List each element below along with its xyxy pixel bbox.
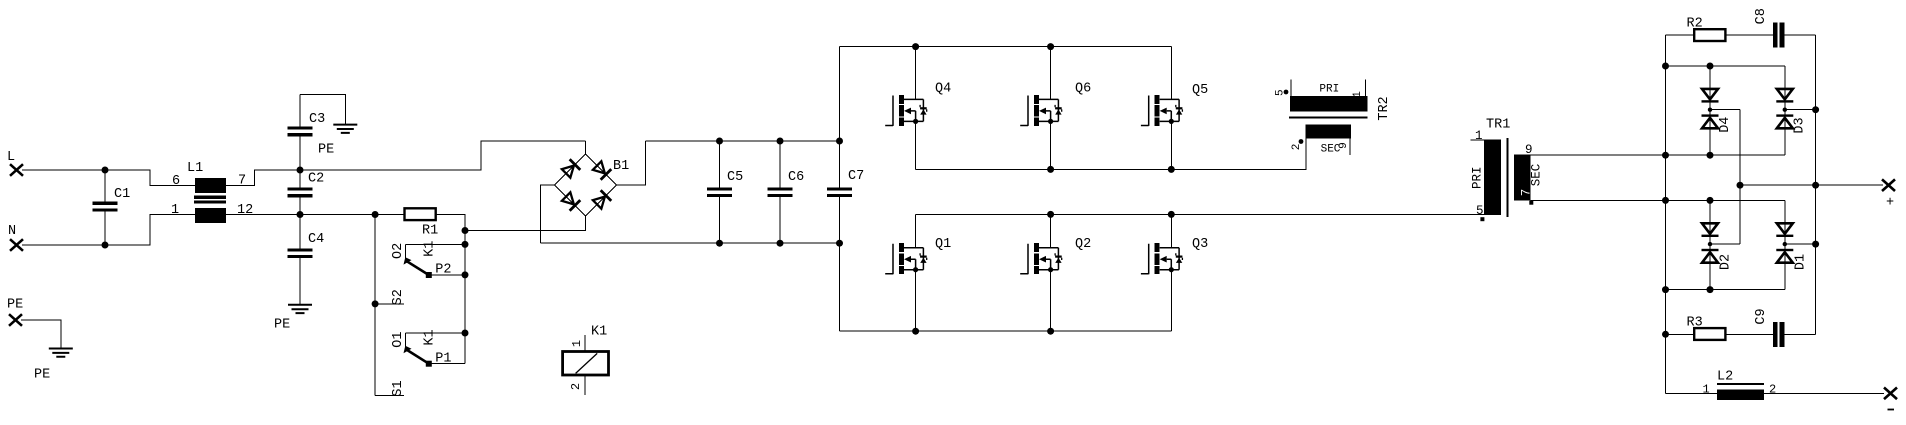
junction N/C1 [102,242,109,249]
svg-text:2: 2 [1291,144,1303,151]
wire bridge top lead [585,141,587,154]
junction relay branch [372,211,379,218]
inductor L1 (common mode choke) [187,161,226,223]
polarity dot TR2 PRI [1284,90,1289,95]
junction plus rail right [1812,182,1819,189]
junction left vertical / R3 row [1662,331,1669,338]
wire L1 pin 12 to R1 (N rail) [226,214,405,216]
svg-text:7: 7 [238,174,246,189]
svg-text:C7: C7 [848,169,864,184]
ground PE input [34,349,73,383]
junction P2 wire [462,271,469,278]
wire anode rail y66 [1666,65,1785,67]
svg-text:O1: O1 [391,331,406,347]
wire left vertical of output block [1665,35,1667,393]
wire H-bridge top rail [840,46,1172,48]
svg-text:O2: O2 [391,243,406,259]
wire Q2 drain [1050,214,1052,247]
pin stub TR2 SEC 9 [1349,139,1351,155]
wire TR1 pin 7 to rectifier [1531,199,1785,201]
wire L2 to minus terminal [1764,392,1884,394]
wire Q2 source [1050,270,1052,332]
stub S2 [375,303,404,305]
junction L/C1 [102,167,109,174]
junction bridge/relay [462,227,469,234]
svg-text:Q6: Q6 [1075,82,1091,97]
junction C7 bottom [836,240,843,247]
junction Q6 source [1047,166,1054,173]
relay coil K1 [563,325,609,376]
capacitor C5 [707,141,743,243]
wire L1 pin 7 to C2 node [226,170,300,186]
svg-text:2: 2 [1769,383,1776,397]
polarity dot TR2 SEC [1299,139,1304,144]
svg-text:PRI: PRI [1471,167,1485,190]
diode B1 north-east [593,161,611,179]
transistor Q5 [1141,83,1208,126]
svg-text:PE: PE [318,143,334,158]
capacitor C8 [1754,8,1784,47]
junction D3 tap on plus vertical [1812,106,1819,113]
svg-text:Q1: Q1 [935,237,951,252]
svg-text:6: 6 [172,174,180,189]
svg-text:D3: D3 [1793,117,1808,133]
svg-text:B1: B1 [613,159,629,174]
inductor L2 [1717,370,1764,400]
wire upper sources rail to TR2 [916,139,1306,170]
resistor R1 [405,208,439,238]
transformer TR1 [1484,118,1530,218]
pin stub TR2 SEC 2 [1305,139,1307,153]
junction C2 top [297,167,304,174]
wire Q1 source [915,270,917,332]
junction Q2 source [1047,328,1054,335]
svg-text:C4: C4 [308,232,324,247]
wire Q6 source [1050,121,1052,169]
svg-text:N: N [8,224,16,239]
svg-text:PRI: PRI [1319,83,1339,95]
capacitor C1 [93,170,131,245]
junction Q4 drain [912,43,919,50]
pin 2 stub K1 coil [584,375,586,395]
capacitor C2 [288,170,325,215]
svg-text:9: 9 [1338,142,1350,149]
relay contact K1 P1/O1 [404,333,466,367]
stub S1 [375,394,404,396]
diode D3 (dual, common cathode) [1776,66,1807,155]
junction D4 anode bottom [1707,152,1714,159]
wire Q5 source [1170,121,1172,169]
junction D4 midpoint [1708,108,1712,112]
wire Q4 source [915,121,917,169]
wire Q6 drain [1050,47,1052,100]
svg-text:2: 2 [569,383,583,390]
junction C6 top [777,138,784,145]
wire PE terminal to ground [21,320,61,348]
junction S2 [372,300,379,307]
wire Q1 drain [915,214,917,247]
junction D4 anode top [1707,63,1714,70]
bridge rectifier B1 [555,154,630,216]
svg-text:C2: C2 [308,172,324,187]
transistor Q2 [1020,237,1091,274]
ground PE below C4 [274,305,312,333]
capacitor C6 [768,141,805,243]
wire D2 midpoint tap [1710,243,1740,245]
wire D3 midpoint tap [1785,109,1816,111]
resistor R3 [1687,316,1726,340]
svg-text:C1: C1 [114,187,130,202]
junction D2 midpoint [1708,242,1712,246]
svg-text:K1: K1 [423,241,438,257]
svg-text:1: 1 [570,340,584,347]
svg-text:Q4: Q4 [935,82,951,97]
diode B1 south-west [562,192,580,210]
capacitor C7 [827,47,864,332]
svg-text:C8: C8 [1754,8,1769,24]
wire top rail C2 to bridge B1 [300,141,586,170]
wire Q4 drain [915,47,917,100]
svg-text:R2: R2 [1687,16,1703,31]
wire bridge bottom to relay [465,216,586,231]
svg-text:SEC: SEC [1530,164,1544,187]
wire R2 C8 snubber row [1666,34,1816,36]
wire C1 to L1 pin 1 [105,215,195,246]
junction Q2 drain [1047,211,1054,218]
pin 1 stub K1 coil [584,335,586,352]
wire C3 to PE ground [300,95,345,125]
node plus output terminal [1882,179,1895,210]
diode D1 (dual, common cathode) [1776,200,1808,289]
wire bridge plus lead [617,141,646,185]
svg-text:P1: P1 [435,352,451,367]
wire L input to C1 [22,169,105,171]
wire DC plus rail to C7 [646,140,840,142]
svg-text:R3: R3 [1687,316,1703,331]
wire D1 midpoint tap [1785,243,1816,245]
svg-text:C6: C6 [788,170,804,185]
diode B1 south-east [593,190,611,208]
wire H-bridge bottom rail [840,330,1172,332]
svg-text:TR1: TR1 [1486,118,1510,133]
transistor Q6 [1020,82,1091,126]
junction Q5 source [1168,166,1175,173]
transistor Q4 [885,82,951,126]
svg-text:5: 5 [1476,204,1484,218]
diode D4 (dual, common cathode) [1702,66,1733,155]
svg-text:L1: L1 [187,161,203,176]
capacitor C9 [1754,308,1784,346]
svg-text:+: + [1886,196,1894,211]
wire lower drains rail to TR1 pin 5 [916,213,1485,215]
wire Q5 drain [1170,47,1172,100]
svg-text:D4: D4 [1718,117,1733,133]
transistor Q1 [885,237,951,274]
junction O2 wire [462,241,469,248]
wire bridge minus lead [540,185,554,243]
svg-text:PE: PE [274,318,290,333]
svg-text:12: 12 [237,203,253,218]
junction plus rail left [1737,182,1744,189]
junction left vertical / rail 66 [1662,63,1669,70]
wire cathode vertical D4/D2 [1739,110,1741,244]
svg-text:S1: S1 [391,380,406,396]
transformer TR2 (current transformer) [1289,83,1368,155]
pin stub TR2 PRI 5 [1290,80,1292,97]
svg-text:Q2: Q2 [1075,237,1091,252]
wire DC minus rail [540,242,839,244]
wire Q3 drain [1170,214,1172,247]
wire R1 to relay contacts vertical [436,215,465,364]
capacitor C3 [288,95,326,170]
diode D2 (dual, common cathode) [1702,200,1734,289]
junction C2/C4 [297,211,304,218]
svg-text:TR2: TR2 [1377,96,1392,120]
svg-text:D2: D2 [1719,254,1734,270]
pin stub TR1 PRI 1 [1471,139,1485,141]
svg-text:1: 1 [1475,129,1483,143]
resistor R2 [1687,16,1726,41]
junction Q1 source [912,328,919,335]
svg-text:C9: C9 [1754,308,1769,324]
node PE (input terminal) [7,298,23,326]
junction C5 bottom [716,240,723,247]
svg-text:C3: C3 [309,112,325,127]
transistor Q3 [1141,237,1208,274]
junction left vertical / pin7 wire [1662,197,1669,204]
wire plus vertical [1815,35,1817,334]
svg-text:PE: PE [7,298,23,313]
wire R3 C9 snubber row [1666,333,1816,335]
junction C6 bottom [777,240,784,247]
svg-text:K1: K1 [423,329,438,345]
node N (mains input terminal) [8,224,23,251]
wire minus row to L2 [1666,392,1717,394]
wire diode block bottom rail [1666,289,1785,291]
svg-text:1: 1 [1352,91,1364,98]
ground PE at C3 [318,125,357,158]
svg-text:K1: K1 [591,325,607,340]
svg-text:L2: L2 [1717,370,1733,385]
wire relay left vertical [374,215,376,396]
diode B1 north-west [562,159,580,177]
junction D1 midpoint [1783,242,1787,246]
wire C1 to L1 pin 6 [105,170,195,186]
svg-text:D1: D1 [1794,254,1809,270]
polarity dot TR1 SEC [1529,201,1533,205]
wire Q3 source [1170,270,1172,332]
junction O1 wire [462,330,469,337]
capacitor C4 [288,215,325,305]
junction left vertical / pin9 wire [1662,152,1669,159]
polarity dot TR1 PRI [1480,217,1484,221]
junction D2 anode bottom [1707,286,1714,293]
junction C7 top [836,138,843,145]
svg-text:1: 1 [1703,383,1710,397]
pin stub TR2 PRI 1 [1364,80,1366,97]
relay contact K1 P2/O2 [404,244,466,278]
junction D3 midpoint [1783,108,1787,112]
svg-text:S2: S2 [391,289,406,305]
svg-text:P2: P2 [435,263,451,278]
wire N input to C1 [22,244,105,246]
node L (mains input terminal) [7,150,23,176]
junction Q6 drain [1047,43,1054,50]
node minus output terminal [1884,388,1897,410]
junction D2 anode top [1707,197,1714,204]
wire D4 midpoint tap [1710,109,1740,111]
junction left vertical / diode bottom rail [1662,286,1669,293]
svg-text:R1: R1 [422,224,438,239]
wire TR1 pin 9 to rectifier [1531,154,1785,156]
junction C5 top [716,138,723,145]
svg-text:Q5: Q5 [1192,83,1208,98]
junction Q3 drain [1168,211,1175,218]
svg-text:L: L [7,150,15,165]
svg-text:7: 7 [1520,189,1534,197]
svg-text:Q3: Q3 [1192,237,1208,252]
svg-text:PE: PE [34,368,50,383]
junction D1 tap on plus vertical [1812,241,1819,248]
svg-text:C5: C5 [727,170,743,185]
wire plus output rail [1740,184,1883,186]
svg-text:1: 1 [171,203,179,218]
